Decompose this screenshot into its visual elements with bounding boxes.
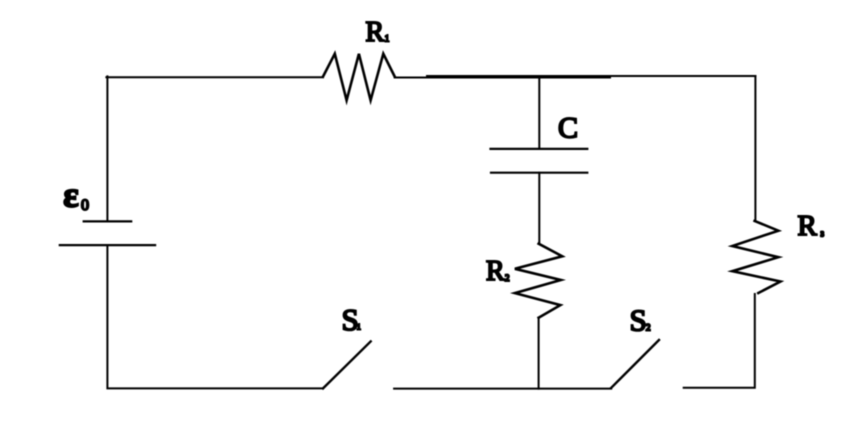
resistor R1 bbox=[323, 54, 395, 101]
wire: capacitor top lead bbox=[538, 76, 540, 149]
wire: right vertical top lead bbox=[754, 76, 756, 221]
battery cell: long plate bbox=[60, 244, 155, 246]
resistor R2 bbox=[515, 244, 562, 318]
svg-text:R: R bbox=[366, 17, 385, 48]
svg-text:S: S bbox=[342, 302, 359, 337]
capacitor C top plate bbox=[491, 148, 588, 150]
svg-text:R: R bbox=[486, 256, 505, 287]
svg-text:ε: ε bbox=[63, 175, 78, 215]
svg-text:R: R bbox=[798, 210, 818, 242]
svg-text:2: 2 bbox=[646, 322, 651, 332]
wire: bottom right horizontal and right vertical lower lead bbox=[684, 294, 755, 388]
wire: left vertical (battery top lead) bbox=[106, 76, 108, 221]
capacitor C bottom plate bbox=[491, 172, 587, 174]
resistor R3 bbox=[732, 221, 780, 293]
switch S1 blade bbox=[323, 341, 371, 388]
switch S2 blade bbox=[611, 340, 659, 388]
wire: top left horizontal bbox=[106, 76, 323, 78]
svg-text:C: C bbox=[558, 112, 578, 145]
wire: R2 bottom lead bbox=[538, 318, 540, 389]
wire: battery bottom lead and bottom-left horizontal bbox=[107, 245, 323, 388]
svg-text:1: 1 bbox=[357, 322, 361, 331]
svg-text:0: 0 bbox=[81, 197, 89, 214]
battery cell: short plate bbox=[84, 220, 132, 222]
wire: top right horizontal (upper segment to right corner) bbox=[427, 75, 755, 77]
svg-text:2: 2 bbox=[505, 273, 510, 283]
wire: top middle horizontal (lower segment, right of R1) bbox=[395, 77, 610, 79]
svg-text:1: 1 bbox=[385, 34, 390, 44]
svg-text:S: S bbox=[630, 302, 647, 337]
wire: bottom middle horizontal bbox=[394, 388, 611, 390]
svg-text:3: 3 bbox=[821, 230, 825, 238]
wire: capacitor bottom lead to R2 bbox=[538, 173, 540, 244]
